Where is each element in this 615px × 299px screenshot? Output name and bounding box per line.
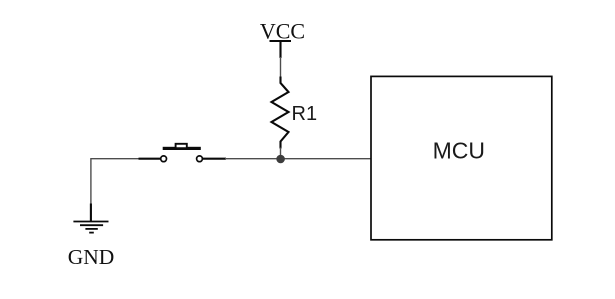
switch S1 left contact	[161, 156, 167, 162]
switch S1 bar	[163, 147, 201, 150]
svg-text:VCC: VCC	[260, 18, 305, 43]
wire node to MCU	[281, 158, 372, 160]
wire switch to node	[225, 158, 281, 160]
junction node	[276, 155, 285, 164]
svg-text:R1: R1	[292, 103, 318, 125]
ground symbol	[73, 222, 108, 233]
svg-text:GND: GND	[68, 245, 115, 269]
switch S1 button	[176, 144, 187, 148]
switch S1 right lead	[203, 158, 227, 160]
wire left vertical (corner down to ground)	[90, 158, 92, 204]
switch S1 left lead	[139, 158, 161, 160]
resistor R1	[272, 77, 289, 149]
MCU U1 box	[371, 76, 552, 239]
wire VCC to resistor	[280, 57, 282, 79]
svg-text:MCU: MCU	[433, 137, 485, 163]
ground lead	[90, 204, 92, 222]
wire left horizontal (corner to switch)	[91, 158, 140, 160]
power symbol VCC lead	[279, 41, 281, 58]
power symbol VCC bar	[270, 40, 292, 42]
wire resistor to node	[280, 148, 282, 160]
switch S1 right contact	[197, 156, 203, 162]
